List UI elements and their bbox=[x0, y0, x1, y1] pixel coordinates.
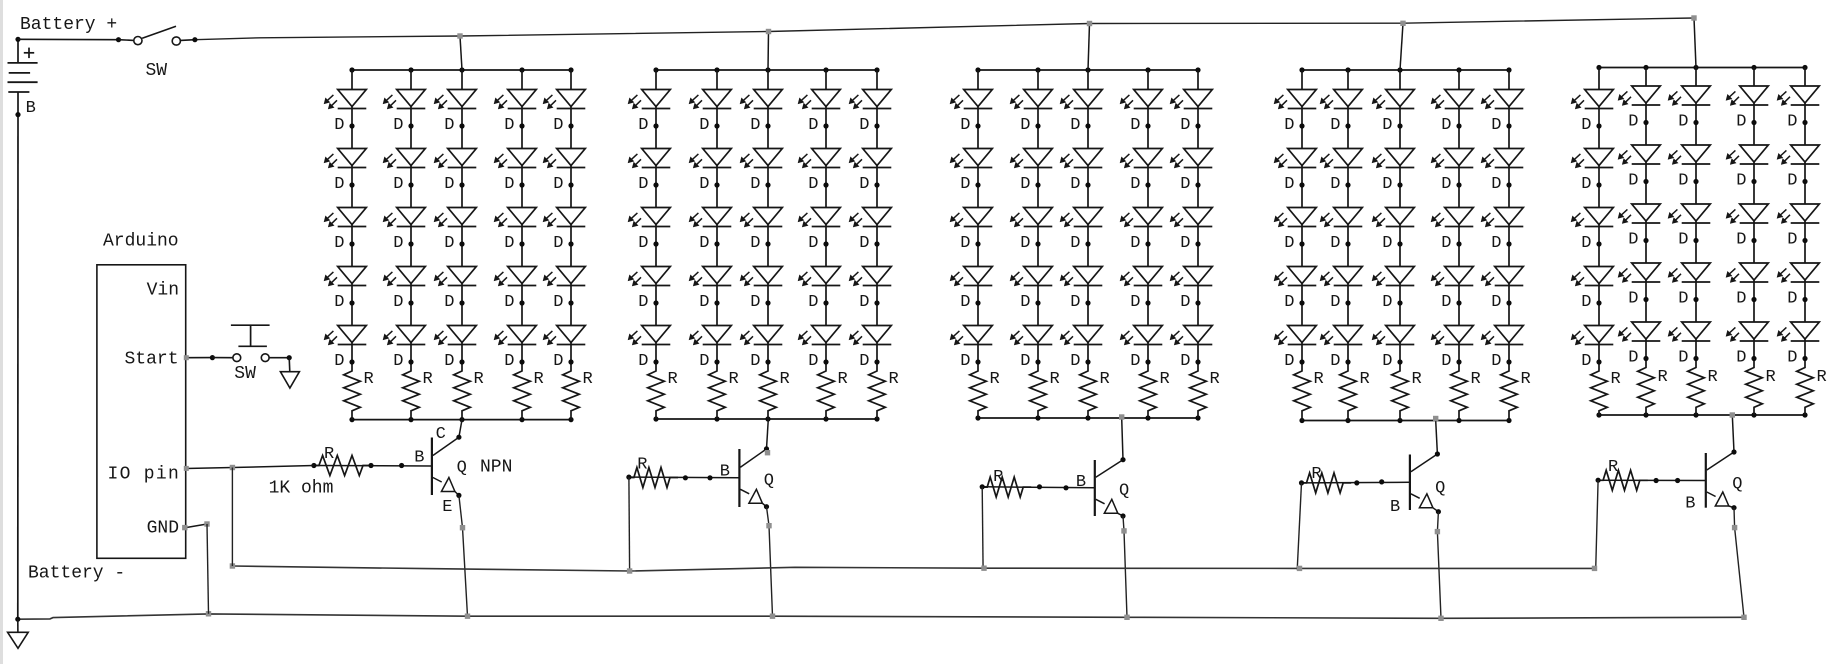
svg-text:D: D bbox=[444, 116, 454, 135]
svg-text:R: R bbox=[889, 370, 899, 389]
svg-text:D: D bbox=[750, 352, 760, 371]
svg-text:D: D bbox=[1284, 234, 1294, 253]
svg-text:D: D bbox=[1130, 293, 1140, 312]
svg-text:D: D bbox=[699, 234, 709, 253]
svg-text:D: D bbox=[1787, 289, 1797, 308]
svg-text:D: D bbox=[393, 352, 403, 371]
svg-text:D: D bbox=[699, 352, 709, 371]
svg-text:Battery -: Battery - bbox=[28, 564, 125, 584]
svg-text:D: D bbox=[553, 175, 563, 194]
svg-text:Q: Q bbox=[1435, 479, 1445, 498]
svg-text:D: D bbox=[750, 293, 760, 312]
svg-text:D: D bbox=[504, 116, 514, 135]
svg-text:D: D bbox=[553, 234, 563, 253]
svg-text:D: D bbox=[1441, 175, 1451, 194]
svg-text:D: D bbox=[393, 175, 403, 194]
svg-text:D: D bbox=[808, 116, 818, 135]
svg-text:D: D bbox=[1020, 234, 1030, 253]
svg-text:D: D bbox=[1736, 230, 1746, 249]
svg-text:R: R bbox=[993, 468, 1003, 487]
svg-text:R: R bbox=[1521, 370, 1531, 389]
svg-text:D: D bbox=[1070, 175, 1080, 194]
svg-text:D: D bbox=[638, 116, 648, 135]
svg-text:B: B bbox=[1685, 495, 1695, 514]
svg-text:D: D bbox=[1130, 234, 1140, 253]
svg-text:D: D bbox=[1330, 175, 1340, 194]
svg-text:R: R bbox=[838, 370, 848, 389]
svg-text:D: D bbox=[1787, 230, 1797, 249]
svg-text:D: D bbox=[1491, 234, 1501, 253]
svg-text:R: R bbox=[1314, 370, 1324, 389]
svg-text:Battery +: Battery + bbox=[20, 15, 117, 35]
svg-text:Arduino: Arduino bbox=[103, 232, 179, 252]
svg-text:D: D bbox=[1678, 112, 1688, 131]
svg-text:R: R bbox=[990, 370, 1000, 389]
svg-text:D: D bbox=[1382, 116, 1392, 135]
svg-text:D: D bbox=[750, 234, 760, 253]
svg-text:D: D bbox=[1441, 352, 1451, 371]
svg-text:D: D bbox=[960, 234, 970, 253]
svg-text:B: B bbox=[26, 99, 36, 118]
svg-text:D: D bbox=[1678, 348, 1688, 367]
svg-text:D: D bbox=[638, 293, 648, 312]
svg-text:D: D bbox=[638, 234, 648, 253]
svg-text:D: D bbox=[699, 116, 709, 135]
svg-text:C: C bbox=[436, 425, 446, 444]
svg-text:D: D bbox=[1382, 293, 1392, 312]
svg-text:1K ohm: 1K ohm bbox=[269, 479, 334, 499]
svg-text:D: D bbox=[1581, 234, 1591, 253]
svg-text:D: D bbox=[1787, 171, 1797, 190]
svg-text:R: R bbox=[1766, 368, 1776, 387]
svg-text:D: D bbox=[1070, 116, 1080, 135]
svg-text:Start: Start bbox=[124, 350, 178, 370]
svg-text:D: D bbox=[1330, 293, 1340, 312]
svg-text:Q: Q bbox=[764, 472, 774, 491]
svg-text:D: D bbox=[1180, 175, 1190, 194]
svg-text:D: D bbox=[1284, 175, 1294, 194]
svg-text:B: B bbox=[414, 448, 424, 467]
svg-text:D: D bbox=[1382, 175, 1392, 194]
svg-text:D: D bbox=[1787, 348, 1797, 367]
svg-text:R: R bbox=[780, 370, 790, 389]
svg-text:D: D bbox=[699, 293, 709, 312]
svg-text:R: R bbox=[1817, 368, 1827, 387]
svg-text:Q: Q bbox=[1119, 481, 1129, 500]
svg-text:R: R bbox=[1311, 465, 1321, 484]
svg-text:D: D bbox=[1678, 230, 1688, 249]
svg-text:D: D bbox=[1628, 171, 1638, 190]
svg-text:D: D bbox=[1736, 289, 1746, 308]
svg-text:D: D bbox=[1736, 171, 1746, 190]
svg-text:D: D bbox=[960, 175, 970, 194]
svg-text:D: D bbox=[444, 175, 454, 194]
svg-text:D: D bbox=[1628, 289, 1638, 308]
svg-text:D: D bbox=[1581, 116, 1591, 135]
svg-text:D: D bbox=[393, 116, 403, 135]
svg-text:D: D bbox=[1330, 234, 1340, 253]
svg-text:D: D bbox=[1382, 352, 1392, 371]
svg-text:B: B bbox=[720, 463, 730, 482]
svg-text:D: D bbox=[1130, 175, 1140, 194]
svg-text:D: D bbox=[1628, 230, 1638, 249]
svg-text:R: R bbox=[324, 445, 334, 464]
svg-text:E: E bbox=[442, 498, 452, 517]
svg-text:D: D bbox=[1736, 348, 1746, 367]
svg-text:D: D bbox=[1581, 175, 1591, 194]
svg-text:D: D bbox=[504, 175, 514, 194]
svg-text:B: B bbox=[1076, 473, 1086, 492]
svg-text:R: R bbox=[1611, 370, 1621, 389]
svg-text:D: D bbox=[1491, 175, 1501, 194]
svg-text:R: R bbox=[534, 370, 544, 389]
svg-text:R: R bbox=[423, 370, 433, 389]
svg-text:D: D bbox=[808, 352, 818, 371]
svg-text:D: D bbox=[1180, 116, 1190, 135]
svg-text:D: D bbox=[1628, 348, 1638, 367]
svg-text:NPN: NPN bbox=[480, 458, 512, 478]
svg-text:D: D bbox=[334, 293, 344, 312]
svg-text:GND: GND bbox=[147, 518, 179, 538]
svg-text:D: D bbox=[859, 175, 869, 194]
svg-text:D: D bbox=[699, 175, 709, 194]
svg-text:D: D bbox=[1020, 293, 1030, 312]
svg-text:D: D bbox=[553, 116, 563, 135]
svg-text:D: D bbox=[504, 234, 514, 253]
svg-text:D: D bbox=[1581, 293, 1591, 312]
svg-text:D: D bbox=[1736, 112, 1746, 131]
svg-text:D: D bbox=[1130, 352, 1140, 371]
svg-text:D: D bbox=[859, 116, 869, 135]
svg-text:B: B bbox=[1390, 498, 1400, 517]
svg-text:D: D bbox=[393, 234, 403, 253]
svg-text:SW: SW bbox=[234, 364, 256, 384]
svg-text:D: D bbox=[444, 293, 454, 312]
svg-text:R: R bbox=[1100, 370, 1110, 389]
svg-text:D: D bbox=[334, 352, 344, 371]
svg-text:D: D bbox=[960, 116, 970, 135]
svg-text:R: R bbox=[1658, 368, 1668, 387]
svg-text:D: D bbox=[334, 116, 344, 135]
svg-text:R: R bbox=[1471, 370, 1481, 389]
svg-text:D: D bbox=[1441, 293, 1451, 312]
svg-text:D: D bbox=[750, 116, 760, 135]
svg-text:SW: SW bbox=[146, 61, 168, 81]
svg-text:D: D bbox=[1180, 293, 1190, 312]
svg-text:D: D bbox=[859, 293, 869, 312]
svg-text:Q: Q bbox=[1732, 475, 1742, 494]
svg-text:D: D bbox=[1180, 352, 1190, 371]
svg-text:R: R bbox=[1360, 370, 1370, 389]
svg-text:D: D bbox=[1330, 352, 1340, 371]
svg-text:IO pin: IO pin bbox=[108, 465, 181, 485]
svg-text:D: D bbox=[1491, 116, 1501, 135]
svg-text:D: D bbox=[750, 175, 760, 194]
svg-text:D: D bbox=[1020, 116, 1030, 135]
svg-text:D: D bbox=[504, 293, 514, 312]
svg-text:D: D bbox=[1628, 112, 1638, 131]
svg-text:R: R bbox=[729, 370, 739, 389]
svg-text:D: D bbox=[444, 352, 454, 371]
svg-text:D: D bbox=[1678, 289, 1688, 308]
svg-text:D: D bbox=[1491, 352, 1501, 371]
svg-text:D: D bbox=[1284, 293, 1294, 312]
svg-text:D: D bbox=[1382, 234, 1392, 253]
svg-text:D: D bbox=[1441, 116, 1451, 135]
svg-text:R: R bbox=[1412, 370, 1422, 389]
svg-text:D: D bbox=[1070, 293, 1080, 312]
svg-text:D: D bbox=[334, 234, 344, 253]
svg-text:D: D bbox=[1491, 293, 1501, 312]
svg-text:D: D bbox=[1581, 352, 1591, 371]
svg-text:D: D bbox=[1130, 116, 1140, 135]
svg-text:R: R bbox=[1608, 458, 1618, 477]
svg-text:D: D bbox=[1284, 352, 1294, 371]
svg-text:R: R bbox=[1160, 370, 1170, 389]
svg-text:D: D bbox=[859, 352, 869, 371]
svg-text:D: D bbox=[1070, 234, 1080, 253]
svg-text:D: D bbox=[808, 293, 818, 312]
svg-text:D: D bbox=[1020, 175, 1030, 194]
svg-text:D: D bbox=[808, 234, 818, 253]
svg-text:D: D bbox=[1441, 234, 1451, 253]
svg-text:D: D bbox=[638, 175, 648, 194]
svg-text:D: D bbox=[960, 293, 970, 312]
svg-text:D: D bbox=[960, 352, 970, 371]
svg-text:Vin: Vin bbox=[147, 281, 179, 301]
svg-text:Q: Q bbox=[457, 459, 467, 478]
svg-text:D: D bbox=[1020, 352, 1030, 371]
svg-text:D: D bbox=[444, 234, 454, 253]
svg-text:D: D bbox=[1070, 352, 1080, 371]
svg-text:R: R bbox=[474, 370, 484, 389]
svg-text:D: D bbox=[859, 234, 869, 253]
svg-text:D: D bbox=[1284, 116, 1294, 135]
svg-text:R: R bbox=[1050, 370, 1060, 389]
svg-text:D: D bbox=[504, 352, 514, 371]
svg-text:R: R bbox=[1210, 370, 1220, 389]
svg-text:D: D bbox=[1180, 234, 1190, 253]
svg-text:D: D bbox=[553, 293, 563, 312]
svg-text:D: D bbox=[808, 175, 818, 194]
svg-text:D: D bbox=[334, 175, 344, 194]
svg-text:D: D bbox=[553, 352, 563, 371]
svg-text:R: R bbox=[364, 370, 374, 389]
svg-text:R: R bbox=[637, 456, 647, 475]
svg-text:R: R bbox=[1708, 368, 1718, 387]
svg-text:D: D bbox=[1330, 116, 1340, 135]
svg-text:D: D bbox=[393, 293, 403, 312]
svg-text:R: R bbox=[668, 370, 678, 389]
svg-text:D: D bbox=[638, 352, 648, 371]
svg-text:D: D bbox=[1787, 112, 1797, 131]
svg-text:R: R bbox=[583, 370, 593, 389]
svg-text:D: D bbox=[1678, 171, 1688, 190]
